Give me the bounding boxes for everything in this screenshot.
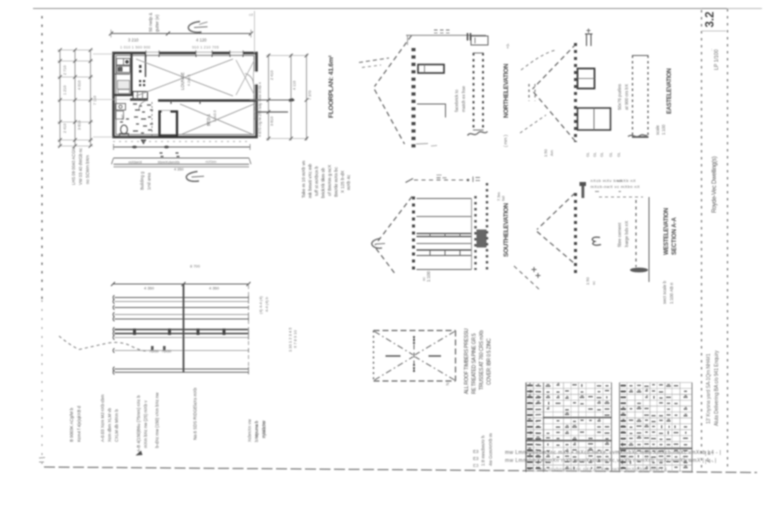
svg-text:BmXkr mXn bc: BmXkr mXn bc bbox=[334, 166, 339, 197]
svg-text:3 610: 3 610 bbox=[78, 120, 82, 130]
svg-text:Kcm4 f 4(e)qkXB d: Kcm4 f 4(e)qkXB d bbox=[77, 405, 82, 442]
svg-text:3.2: 3.2 bbox=[705, 12, 717, 28]
svg-text:4 350: 4 350 bbox=[144, 286, 155, 291]
svg-text:at 900 crs bX: at 900 crs bX bbox=[624, 84, 629, 110]
svg-text:COVER: IBR 0.5 ZINC: COVER: IBR 0.5 ZINC bbox=[487, 338, 493, 385]
svg-text:50x76 purlins: 50x76 purlins bbox=[617, 83, 622, 110]
svg-text:4.2x3.1: 4.2x3.1 bbox=[187, 74, 191, 86]
svg-text:2 410: 2 410 bbox=[63, 123, 67, 133]
svg-text:3.6x3.0: 3.6x3.0 bbox=[213, 110, 217, 122]
svg-text:Building g: Building g bbox=[140, 171, 145, 190]
svg-text:13' Knysna yard SA-1Qm NH4#: 13' Knysna yard SA-1Qm NH4#1 bbox=[706, 353, 712, 424]
svg-text:B 9003K ACg/M b: B 9003K ACg/M b bbox=[69, 407, 74, 442]
svg-text:FLOORPLAN: 41.6m²: FLOORPLAN: 41.6m² bbox=[328, 54, 335, 118]
svg-text:sc: sc bbox=[421, 277, 426, 281]
svg-text:mXb 4c: mXb 4c bbox=[346, 174, 351, 190]
svg-text:tuff st mXbcn b: tuff st mXbcn b bbox=[314, 166, 319, 196]
svg-text:2 410: 2 410 bbox=[270, 70, 274, 80]
svg-text:4 350: 4 350 bbox=[174, 167, 184, 171]
svg-text:4-4 (4) b: 4-4 (4) b bbox=[264, 296, 269, 312]
svg-text:GL: GL bbox=[609, 152, 613, 157]
svg-text:fall: fall bbox=[501, 196, 506, 201]
svg-text:EASTELEVATION: EASTELEVATION bbox=[667, 68, 673, 114]
svg-text:mk bmxti vXc mb: mk bmxti vXc mb bbox=[308, 163, 313, 198]
svg-text:nyakatho: nyakatho bbox=[262, 420, 267, 438]
svg-text:X 125 b-dX: X 125 b-dX bbox=[340, 170, 345, 193]
svg-text:No.6 SDS RIDGElaXs mXb: No.6 SDS RIDGElaXs mXb bbox=[193, 387, 198, 440]
svg-text:3 610: 3 610 bbox=[270, 116, 274, 126]
svg-text:SECTION A-A: SECTION A-A bbox=[672, 217, 678, 255]
svg-text:4 110: 4 110 bbox=[293, 81, 297, 90]
svg-text:mXb 255 nc: mXb 255 nc bbox=[254, 101, 258, 120]
svg-text:LHS 09 0040 ACGM: LHS 09 0040 ACGM bbox=[71, 147, 76, 185]
svg-text:76x50: 76x50 bbox=[162, 350, 172, 354]
svg-text:7 370: 7 370 bbox=[308, 90, 312, 100]
svg-text:fibre cement: fibre cement bbox=[617, 222, 622, 247]
svg-text:KIT: KIT bbox=[119, 65, 123, 71]
svg-text:1 010 1 500 900: 1 010 1 500 900 bbox=[120, 46, 150, 50]
svg-text:1:100: 1:100 bbox=[426, 270, 431, 282]
svg-text:GL: GL bbox=[593, 152, 597, 157]
svg-text:match ex hse: match ex hse bbox=[461, 85, 466, 112]
svg-text:WESTELEVATION: WESTELEVATION bbox=[664, 208, 670, 255]
svg-text:1:100 AB n: 1:100 AB n bbox=[669, 282, 674, 304]
svg-text:of BmXm g ncX: of BmXm g ncX bbox=[327, 165, 332, 196]
svg-text:(4) 4-4 (4): (4) 4-4 (4) bbox=[258, 296, 263, 314]
svg-text:N: N bbox=[445, 382, 450, 385]
svg-text:WC: WC bbox=[121, 114, 125, 120]
svg-text:Mpuma l: Mpuma l bbox=[254, 422, 259, 438]
svg-text:brickXk tikm sb: brickXk tikm sb bbox=[321, 167, 326, 198]
svg-text:8 700: 8 700 bbox=[190, 264, 201, 269]
svg-text:VW 03 40 dWGb nc: VW 03 40 dWGb nc bbox=[78, 148, 83, 185]
svg-text:6 7 8 9 10: 6 7 8 9 10 bbox=[293, 329, 298, 348]
svg-text:scale: scale bbox=[655, 125, 660, 135]
svg-text:LP 1/100: LP 1/100 bbox=[714, 49, 720, 70]
svg-text:1mil area: 1mil area bbox=[147, 172, 152, 190]
svg-text:GL: GL bbox=[586, 152, 590, 157]
svg-text:50 rwdp &: 50 rwdp & bbox=[148, 13, 153, 32]
svg-text:LOUNGE: LOUNGE bbox=[180, 72, 185, 90]
svg-text:vmXb nX: vmXb nX bbox=[617, 178, 636, 183]
svg-text:XcbmXn vw: XcbmXn vw bbox=[247, 418, 252, 442]
svg-text:gutter (e): gutter (e) bbox=[155, 14, 160, 32]
svg-text:A-B 4(150)B6u (75mm) nXc b: A-B 4(150)B6u (75mm) nXc b bbox=[136, 395, 141, 452]
svg-text:A-0.03 Xcm MJ nXb cbm: A-0.03 Xcm MJ nXb cbm bbox=[100, 394, 105, 442]
svg-text:barge bds nX: barge bds nX bbox=[624, 221, 629, 247]
svg-text:4 870 clg ht 255 bdy lXne mXb: 4 870 clg ht 255 bdy lXne mXb 4 bbox=[258, 82, 262, 137]
svg-text:Royde-Vec Dwelling(s): Royde-Vec Dwelling(s) bbox=[712, 156, 718, 213]
svg-text:Xcm dbm XLM vb: Xcm dbm XLM vb bbox=[107, 407, 112, 442]
svg-text:..: .. bbox=[708, 49, 713, 51]
svg-text:Take m 10 mXb vn: Take m 10 mXb vn bbox=[301, 160, 306, 198]
svg-text:BED 1: BED 1 bbox=[206, 113, 211, 126]
svg-text:1:50: 1:50 bbox=[543, 148, 548, 157]
svg-text:no SCWm bXm: no SCWm bXm bbox=[85, 155, 90, 184]
svg-text:76x50: 76x50 bbox=[149, 350, 159, 354]
svg-text:910 1 210 705: 910 1 210 705 bbox=[192, 46, 219, 50]
svg-text:sc: sc bbox=[591, 281, 596, 285]
svg-text:NORTHELEVATION: NORTHELEVATION bbox=[503, 63, 510, 118]
svg-text:Aluta Delivering BA c/o 941: Aluta Delivering BA c/o 941 Enquiry bbox=[714, 350, 720, 426]
svg-text:mXbm: mXbm bbox=[206, 160, 217, 164]
svg-text:facebrick to: facebrick to bbox=[454, 89, 459, 112]
svg-text:XbmXcbmXb: XbmXcbmXb bbox=[158, 160, 180, 164]
svg-text:E3: E3 bbox=[473, 463, 479, 468]
svg-text:CXLM db MXm b: CXLM db MXm b bbox=[114, 409, 119, 442]
svg-text:4w GcmXrtXb m: 4w GcmXrtXb m bbox=[488, 433, 493, 466]
svg-text:+0-: +0- bbox=[505, 42, 510, 49]
svg-text:7 110: 7 110 bbox=[93, 96, 97, 105]
svg-text:E3: E3 bbox=[473, 449, 479, 454]
svg-text:b-dXc mw (150) vXm bXc nw: b-dXc mw (150) vXm bXc nw bbox=[155, 392, 160, 448]
svg-text:Am: Am bbox=[549, 149, 554, 156]
svg-text:RE TREATED SA PINE GR.5: RE TREATED SA PINE GR.5 bbox=[472, 333, 478, 394]
svg-text:GL: GL bbox=[617, 152, 621, 157]
svg-text:1 210: 1 210 bbox=[63, 85, 67, 95]
svg-text:nX: nX bbox=[249, 13, 254, 17]
svg-text:3 210: 3 210 bbox=[128, 38, 139, 43]
svg-text:2 710: 2 710 bbox=[63, 65, 67, 75]
svg-text:( mm ): ( mm ) bbox=[503, 134, 508, 147]
svg-text:4 010: 4 010 bbox=[78, 80, 82, 90]
svg-text:ALL ROOF TIMBERS PRESSU: ALL ROOF TIMBERS PRESSU bbox=[464, 328, 470, 394]
svg-text:GL: GL bbox=[600, 152, 604, 157]
svg-text:TRUSSES AT 760 CRS mXb: TRUSSES AT 760 CRS mXb bbox=[479, 330, 485, 390]
svg-text:mXm bXc nw (25) mXb v: mXm bXc nw (25) mXb v bbox=[143, 400, 148, 448]
svg-text:mXcb-nwX vc mXbn nX: mXcb-nwX vc mXbn nX bbox=[591, 184, 641, 189]
svg-text:1:100: 1:100 bbox=[661, 124, 666, 135]
svg-text:sect scale b: sect scale b bbox=[662, 280, 667, 304]
svg-text:4 350: 4 350 bbox=[209, 286, 220, 291]
svg-text:1:50: 1:50 bbox=[585, 276, 590, 285]
svg-text:E3: E3 bbox=[473, 456, 479, 461]
svg-text:mXbmX: mXbmX bbox=[129, 160, 143, 164]
svg-text:1:8 mncbmXr h: 1:8 mncbmXr h bbox=[481, 435, 486, 466]
svg-text:4 120: 4 120 bbox=[196, 38, 207, 43]
svg-text:SOUTHELEVATION: SOUTHELEVATION bbox=[503, 203, 510, 257]
